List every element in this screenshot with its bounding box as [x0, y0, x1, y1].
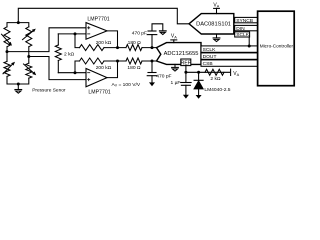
node bottom rail cap junction	[151, 60, 154, 63]
wire bridge right leg	[28, 47, 30, 63]
svg-text:470 pF: 470 pF	[156, 74, 171, 80]
label LM4040-2.5	[204, 87, 230, 93]
wire top rail into ADC	[142, 47, 157, 49]
wire bridge left tap to U1 +input	[7, 28, 86, 52]
micro-controller box	[258, 11, 295, 86]
wire bottom feedback vertical	[75, 61, 80, 73]
svg-text:DIN: DIN	[236, 26, 245, 32]
ground DAC	[213, 34, 220, 42]
node bridge bottom junction	[17, 83, 20, 86]
ADC U3 ADC121S655 body	[157, 43, 202, 65]
label 470 pF top	[132, 31, 147, 37]
wire U1 -input	[58, 33, 86, 35]
zener D LM4040-2.5	[194, 72, 203, 95]
pin CSB box	[201, 60, 258, 67]
svg-text:180 Ω: 180 Ω	[128, 40, 142, 46]
capacitor C 470pF bottom	[147, 61, 157, 82]
wire 2k bottom connection	[57, 61, 59, 73]
ground 1uF cap	[183, 95, 189, 99]
capacitor C 1uF	[181, 72, 191, 95]
power VA ADC	[171, 34, 177, 43]
resistor R 2k REF	[205, 69, 224, 75]
svg-text:200 kΩ: 200 kΩ	[96, 40, 112, 46]
svg-text:ADC121S655: ADC121S655	[164, 51, 199, 57]
wire bridge top to DAC output	[18, 8, 189, 23]
label U2 LMP7701	[88, 89, 110, 95]
label U1 LMP7701	[87, 16, 109, 22]
wire bridge bottom rail	[7, 76, 29, 84]
node bottom rail output junction	[116, 60, 119, 63]
resistor R 2k	[55, 45, 61, 60]
label 200 kOhm top	[96, 40, 112, 46]
svg-text:180 Ω: 180 Ω	[127, 65, 141, 71]
svg-text:SCLK: SCLK	[236, 32, 250, 38]
resistor R 200k top	[80, 45, 104, 51]
label DAC081S101	[196, 22, 231, 28]
wire DAC SCLK to ADC SCLK	[248, 37, 250, 46]
svg-text:SCLK: SCLK	[203, 47, 217, 53]
wire bridge top rail	[7, 23, 29, 27]
pin SCLK box (DAC)	[235, 32, 250, 38]
pin SYNCB box	[235, 17, 258, 23]
node bridge top junction	[17, 21, 20, 24]
svg-text:1 µF: 1 µF	[171, 80, 181, 86]
ground top 470pF cap	[159, 31, 166, 35]
wire bottom rail mid	[104, 60, 126, 62]
ground ADC	[172, 64, 179, 71]
ground LM4040	[196, 95, 202, 99]
svg-text:Pressure Senor: Pressure Senor	[32, 87, 66, 93]
wire top rail mid	[104, 47, 126, 49]
wire REF pin down	[185, 66, 187, 73]
label Av = 100 V/V	[112, 82, 141, 88]
svg-text:CSB: CSB	[203, 61, 213, 67]
resistor bridge lower-right strain gauge	[24, 63, 37, 78]
wire REF node rail	[186, 71, 230, 73]
resistor R 180 bottom	[126, 58, 142, 64]
node top rail output junction	[116, 46, 119, 49]
svg-text:470 pF: 470 pF	[132, 31, 147, 37]
ground bridge	[15, 84, 22, 93]
op-amp U2	[86, 69, 107, 87]
node U2 -input feedback tap	[74, 71, 77, 74]
svg-text:Micro-Controller: Micro-Controller	[260, 43, 294, 48]
DAC U4 DAC081S101 body	[189, 14, 234, 34]
wire U1 output	[107, 31, 118, 48]
label 470 pF bottom	[156, 74, 171, 80]
svg-text:2 kΩ: 2 kΩ	[210, 76, 221, 82]
power VA REF	[231, 69, 240, 77]
resistor bridge upper-left strain gauge	[2, 27, 13, 47]
ground bottom 470pF cap	[149, 82, 155, 86]
label 180 Ohm top	[128, 40, 142, 46]
node SCLK junction	[248, 45, 251, 48]
wire bridge left leg	[6, 47, 8, 62]
svg-text:DAC081S101: DAC081S101	[196, 22, 231, 28]
resistor R 180 top	[126, 45, 142, 51]
svg-text:LM4040-2.5: LM4040-2.5	[204, 87, 230, 93]
node U1 -input feedback tap	[74, 32, 77, 35]
capacitor C 470pF top	[147, 24, 163, 48]
svg-text:AV = 100 V/V: AV = 100 V/V	[112, 82, 141, 88]
node REF diode junction	[197, 71, 200, 74]
svg-text:VA: VA	[233, 71, 239, 77]
wire U2 -input	[58, 72, 86, 74]
svg-text:DOUT: DOUT	[203, 54, 217, 60]
pin DIN box	[235, 25, 258, 31]
node top rail cap junction	[151, 46, 154, 49]
wire U2 output	[107, 61, 118, 78]
pin REF box	[181, 59, 191, 66]
pin DOUT box	[201, 53, 258, 60]
wire 2k top connection	[57, 34, 59, 45]
svg-text:LMP7701: LMP7701	[87, 16, 109, 22]
resistor bridge lower-left strain gauge	[3, 61, 15, 76]
node bridge left tap	[6, 50, 9, 53]
wire top feedback vertical	[75, 34, 80, 48]
pin SCLK box	[201, 46, 258, 53]
wire bottom rail into ADC	[142, 60, 157, 62]
svg-text:LMP7701: LMP7701	[88, 89, 110, 95]
label Pressure Sensor	[32, 87, 66, 93]
resistor bridge upper-right strain gauge	[23, 27, 36, 47]
power VA DAC	[213, 3, 219, 14]
svg-text:2 kΩ: 2 kΩ	[64, 51, 75, 57]
svg-text:VA: VA	[171, 34, 177, 40]
label 200 kOhm bottom	[96, 65, 112, 71]
node bridge right tap	[27, 55, 30, 58]
op-amp U1	[86, 23, 107, 40]
svg-text:200 kΩ: 200 kΩ	[96, 65, 112, 71]
wire bridge right tap to U2 +input	[29, 57, 86, 80]
resistor R 200k bottom	[80, 58, 104, 64]
label 2 kOhm REF	[210, 76, 221, 82]
label 2 kOhm	[64, 51, 75, 57]
label 1 uF	[171, 80, 181, 86]
node REF cap junction	[184, 71, 187, 74]
label 180 Ohm bottom	[127, 65, 141, 71]
label Micro-Controller	[260, 43, 294, 48]
label ADC121S655	[164, 51, 199, 57]
svg-text:SYNCB: SYNCB	[236, 18, 253, 24]
svg-text:VA: VA	[213, 3, 219, 9]
